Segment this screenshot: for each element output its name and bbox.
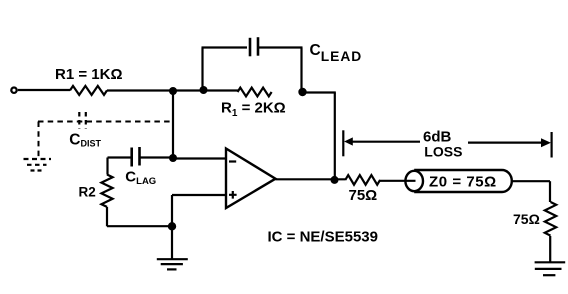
wire load vertical: [549, 181, 551, 202]
resistor R1 feedback 2K: [238, 88, 272, 97]
wire C_LEAD left vertical: [201, 48, 203, 91]
wire coax to load: [512, 180, 551, 182]
node inverting junction dot: [169, 154, 177, 162]
wire op-amp output: [276, 178, 346, 180]
resistor 75 ohm series: [345, 175, 380, 185]
resistor R2: [101, 175, 112, 207]
wire inverting node to op-amp: [173, 157, 226, 159]
svg-text:R1 = 1KΩ: R1 = 1KΩ: [55, 66, 122, 83]
wire R2 bottom: [106, 207, 108, 226]
wire op-amp + input: [172, 194, 226, 196]
coax left ellipse: [405, 171, 423, 191]
node ground junction dot: [168, 222, 176, 230]
dimension left bar: [342, 130, 344, 156]
wire to coax with center conductor tick: [380, 180, 416, 182]
node B junction dot: [200, 86, 208, 94]
svg-text:R2: R2: [79, 185, 96, 200]
coax Z0 body: [414, 170, 512, 192]
wire C_LEAD top right: [259, 46, 303, 48]
wire input to R1: [18, 89, 70, 91]
capacitor C_LAG: [130, 148, 133, 167]
wire node A to inverting input: [172, 91, 174, 158]
wire corner down to R2: [106, 158, 108, 175]
dimension right bar: [550, 132, 552, 158]
svg-text:R1 = 2KΩ: R1 = 2KΩ: [221, 100, 286, 120]
resistor 75 ohm load: [545, 202, 556, 236]
ground load: [535, 261, 566, 263]
wire + input vertical: [171, 195, 173, 226]
node A junction dot: [169, 87, 177, 95]
resistor R1: [70, 86, 107, 95]
wire load to ground: [549, 236, 551, 262]
wire C_LAG left lead: [108, 156, 132, 158]
svg-text:75Ω: 75Ω: [349, 187, 378, 204]
wire C_LAG right lead: [141, 156, 174, 158]
op-amp U1: [226, 149, 276, 209]
capacitor C_LEAD: [249, 38, 252, 57]
wire C_DIST dashed vertical: [38, 122, 40, 159]
capacitor C_DIST plates: [78, 112, 80, 129]
wire R1 to feedback node: [107, 89, 238, 91]
node output junction dot: [331, 176, 339, 184]
svg-text:Z0 = 75Ω: Z0 = 75Ω: [429, 174, 497, 191]
ground op-amp: [157, 258, 188, 260]
capacitor C_DIST dashed horizontal wire: [38, 121, 171, 123]
svg-text:IC = NE/SE5539: IC = NE/SE5539: [268, 229, 378, 246]
wire feedback node to output drop: [303, 91, 336, 93]
svg-text:LOSS: LOSS: [424, 144, 462, 160]
svg-text:75Ω: 75Ω: [513, 211, 540, 227]
input terminal: [11, 88, 16, 93]
wire C_LEAD top left: [202, 46, 248, 48]
dimension arrow left: [350, 141, 420, 143]
node C junction dot: [298, 88, 306, 96]
ground dashed C_DIST: [24, 158, 52, 160]
wire ground stem: [171, 226, 173, 259]
dimension arrow right: [468, 142, 543, 144]
wire C_LEAD right vertical: [300, 48, 302, 93]
wire bottom horizontal to ground node: [107, 225, 172, 227]
wire output vertical drop: [334, 93, 336, 180]
